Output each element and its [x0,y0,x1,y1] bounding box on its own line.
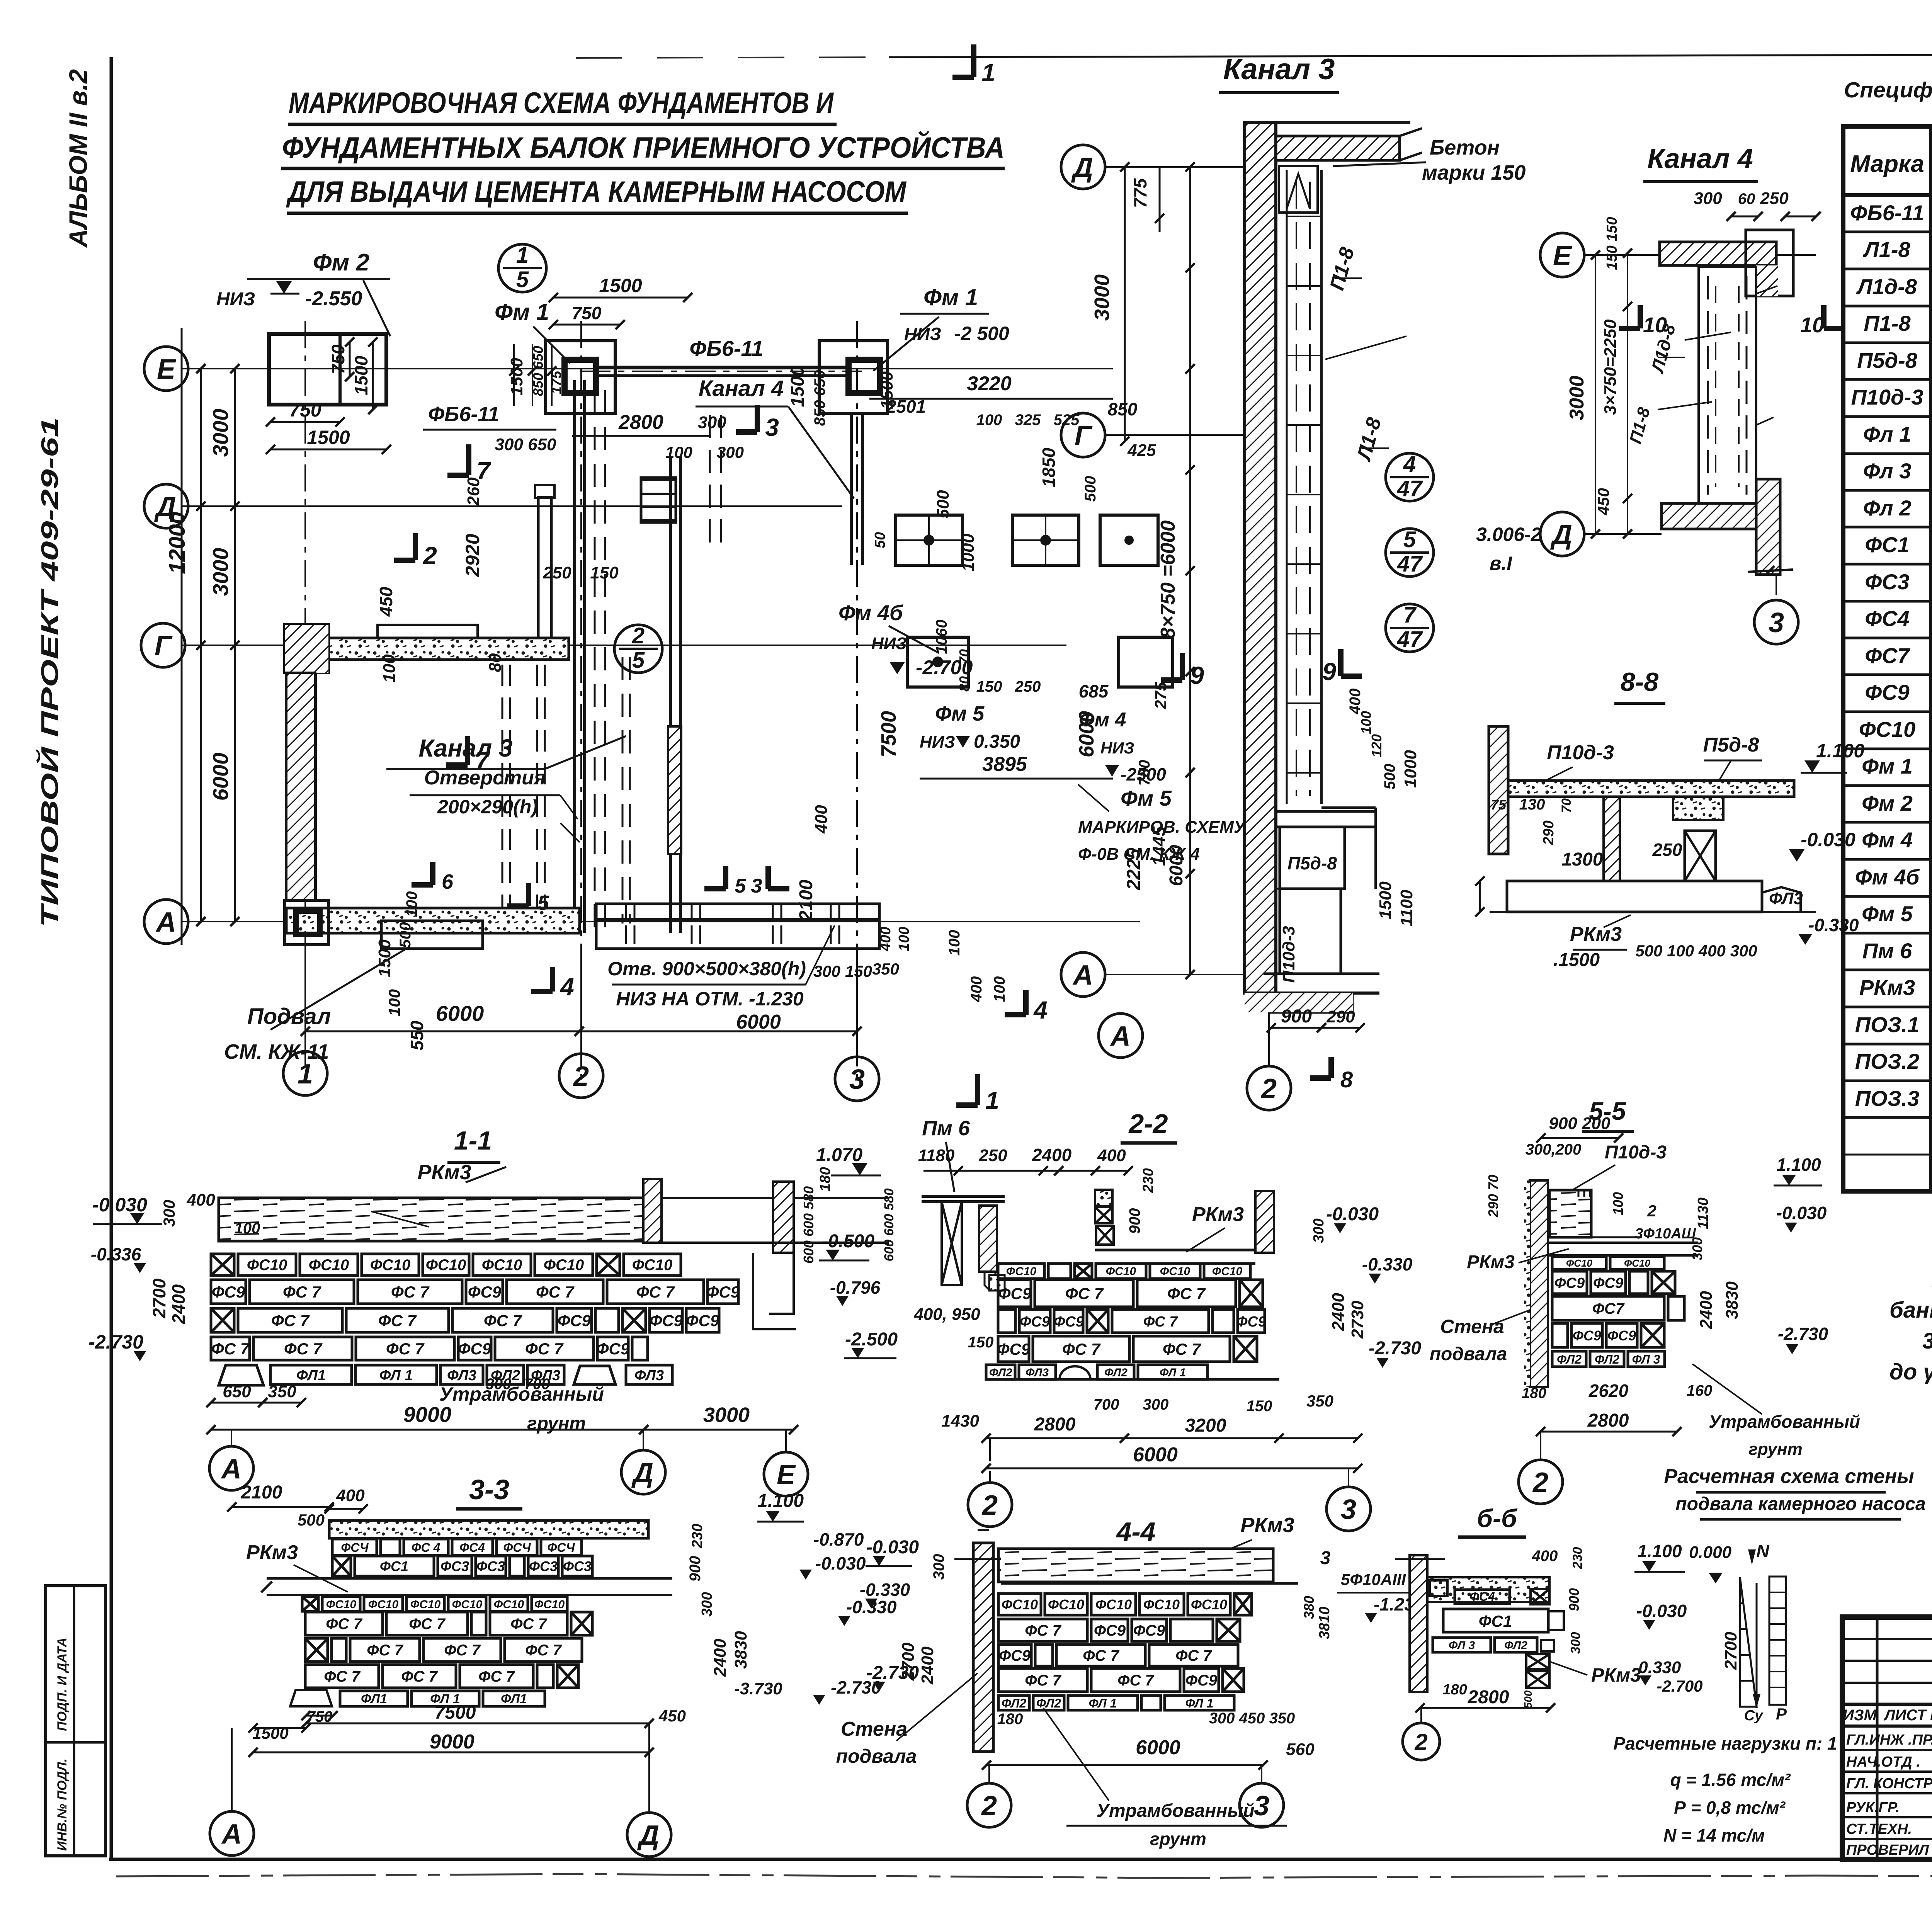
svg-text:2920: 2920 [462,534,483,577]
svg-text:0.350: 0.350 [974,731,1020,752]
svg-text:300 450 350: 300 450 350 [1209,1710,1295,1727]
svg-text:250: 250 [1652,840,1682,860]
svg-text:А: А [155,907,176,938]
svg-text:1500: 1500 [1376,881,1395,919]
svg-text:ФС9: ФС9 [212,1283,245,1301]
svg-text:ФС 7: ФС 7 [271,1311,310,1330]
svg-text:ФС4: ФС4 [1865,606,1909,631]
svg-text:П10д-3: П10д-3 [1605,1142,1667,1163]
svg-text:ФС 7: ФС 7 [409,1616,446,1633]
svg-text:ФС10: ФС10 [494,1598,524,1611]
svg-text:-0.336: -0.336 [91,1244,141,1264]
svg-text:подвала: подвала [836,1745,917,1767]
svg-text:ФС10: ФС10 [1566,1257,1593,1269]
svg-text:НАЧ.ОТД .: НАЧ.ОТД . [1846,1754,1920,1770]
svg-text:3000: 3000 [1090,274,1114,321]
svg-text:500: 500 [1381,764,1398,790]
svg-text:230: 230 [1570,1547,1585,1570]
svg-text:ФС 7: ФС 7 [525,1340,564,1358]
svg-text:ГЛ.ИНЖ .ПР.: ГЛ.ИНЖ .ПР. [1846,1732,1932,1748]
svg-text:8×750 =6000: 8×750 =6000 [1157,520,1179,639]
svg-text:-0.330: -0.330 [860,1580,910,1600]
svg-text:-0.030: -0.030 [1776,1203,1827,1223]
svg-text:300 650: 300 650 [495,435,556,454]
svg-text:Фм 5: Фм 5 [935,702,985,725]
svg-text:9000: 9000 [403,1402,452,1427]
svg-text:380: 380 [1301,1596,1317,1619]
svg-text:ФС4: ФС4 [1469,1590,1495,1604]
svg-text:350: 350 [872,960,899,978]
svg-text:500: 500 [1082,476,1099,502]
svg-text:ИЗМ: ИЗМ [1843,1707,1877,1724]
svg-text:ФС9: ФС9 [596,1340,630,1358]
svg-text:П10д-3: П10д-3 [1547,742,1614,764]
svg-text:100: 100 [235,1220,260,1237]
svg-text:290: 290 [1541,820,1557,845]
svg-text:2800: 2800 [1468,1687,1509,1708]
svg-text:ФС9: ФС9 [1865,680,1909,704]
svg-text:-0.330: -0.330 [1362,1254,1413,1274]
svg-text:3000: 3000 [208,409,233,457]
svg-text:ФС 7: ФС 7 [1065,1284,1104,1303]
svg-text:1500: 1500 [599,275,642,296]
svg-text:450: 450 [658,1707,686,1725]
svg-text:Фм 1: Фм 1 [495,299,549,325]
svg-text:-2.700: -2.700 [1656,1677,1702,1695]
svg-text:ФС9: ФС9 [1593,1275,1623,1291]
svg-text:ФЛ1: ФЛ1 [361,1692,387,1706]
svg-text:ФС 7: ФС 7 [510,1616,547,1633]
svg-text:1130: 1130 [1695,1197,1711,1229]
svg-text:1.100: 1.100 [1637,1541,1682,1561]
svg-text:ФС9: ФС9 [1020,1314,1050,1330]
svg-text:Г: Г [155,631,173,662]
svg-text:ФС10: ФС10 [309,1257,349,1274]
svg-text:ФС9: ФС9 [998,1284,1032,1303]
svg-text:400: 400 [1347,689,1364,715]
svg-text:ФБ6-11: ФБ6-11 [428,403,499,426]
svg-text:230: 230 [1140,1168,1156,1193]
svg-text:ФС10: ФС10 [452,1598,483,1611]
svg-text:8-8: 8-8 [1621,667,1658,697]
svg-text:ФС1: ФС1 [380,1558,408,1574]
svg-text:400: 400 [186,1190,215,1209]
svg-text:550: 550 [407,1020,427,1050]
svg-text:250: 250 [978,1146,1007,1165]
svg-text:ФС10: ФС10 [368,1598,399,1611]
svg-text:ФС9: ФС9 [558,1311,591,1330]
svg-text:1850: 1850 [1039,447,1059,487]
svg-text:ФС9: ФС9 [1573,1328,1601,1344]
svg-text:q = 1.56 тс/м²: q = 1.56 тс/м² [1670,1770,1791,1790]
svg-text:ФС10: ФС10 [247,1257,287,1274]
svg-text:П5д-8: П5д-8 [1703,734,1759,756]
svg-text:А: А [1110,1021,1131,1052]
svg-text:4-4: 4-4 [1116,1517,1155,1547]
svg-text:1-1: 1-1 [454,1126,492,1155]
svg-text:Подвал: Подвал [247,1004,331,1029]
svg-text:500: 500 [934,490,952,519]
svg-text:2: 2 [1532,1467,1548,1498]
svg-text:560: 560 [1286,1740,1315,1759]
svg-text:ФС 7: ФС 7 [478,1668,515,1685]
svg-text:780: 780 [1136,760,1153,786]
svg-text:180: 180 [997,1711,1023,1728]
svg-text:ФС 7: ФС 7 [211,1340,250,1358]
svg-text:150: 150 [845,962,872,980]
svg-text:400: 400 [812,805,831,834]
svg-text:в.I: в.I [1490,553,1512,574]
svg-text:750: 750 [572,303,602,323]
svg-text:НИЗ: НИЗ [871,634,907,653]
svg-text:Е: Е [157,354,176,385]
svg-text:9: 9 [1322,658,1336,685]
svg-text:Фм 1: Фм 1 [923,284,978,310]
svg-text:3200: 3200 [1185,1415,1226,1436]
svg-text:-2 500: -2 500 [954,323,1009,344]
svg-text:70: 70 [956,649,972,665]
svg-text:650: 650 [223,1382,251,1401]
svg-text:3000: 3000 [1566,376,1588,420]
svg-text:ФЛ 3: ФЛ 3 [1632,1352,1660,1366]
svg-text:150: 150 [1247,1398,1272,1415]
svg-text:3: 3 [1320,1548,1331,1568]
svg-text:250: 250 [1760,189,1789,208]
svg-text:685: 685 [1079,681,1109,701]
svg-text:47: 47 [1397,551,1423,577]
svg-text:ФЛ 1: ФЛ 1 [379,1367,413,1384]
svg-text:250: 250 [1015,678,1041,695]
svg-text:5: 5 [1403,527,1416,552]
svg-text:РКм3: РКм3 [1570,923,1622,946]
svg-text:100: 100 [976,412,1002,429]
svg-text:ФС 7: ФС 7 [536,1283,575,1301]
svg-text:П1-8: П1-8 [1864,311,1911,335]
svg-text:9: 9 [1190,662,1204,689]
svg-text:ФС10: ФС10 [1106,1265,1136,1278]
svg-text:100: 100 [380,654,399,683]
svg-text:Фм 5: Фм 5 [1121,786,1172,810]
svg-text:100: 100 [385,989,403,1016]
svg-text:ФС 7: ФС 7 [378,1311,417,1330]
svg-text:3830: 3830 [1723,1281,1742,1319]
svg-text:100: 100 [403,891,420,917]
svg-text:2: 2 [423,542,437,570]
svg-text:300: 300 [930,1554,947,1580]
svg-text:3000: 3000 [208,548,233,596]
svg-text:подвала: подвала [1430,1344,1507,1364]
svg-text:700: 700 [524,1376,550,1393]
svg-text:2: 2 [1260,1073,1277,1104]
svg-text:РКм3: РКм3 [1859,975,1915,1000]
svg-text:6000: 6000 [208,753,233,801]
svg-text:Отверстия: Отверстия [424,767,546,789]
svg-text:400: 400 [1097,1146,1126,1165]
svg-text:6000: 6000 [1075,711,1098,757]
svg-text:2700: 2700 [149,1278,169,1318]
svg-text:1500: 1500 [252,1724,288,1742]
svg-text:А: А [1072,960,1093,991]
svg-text:ФС 7: ФС 7 [1175,1647,1212,1664]
svg-text:4: 4 [1403,452,1416,477]
svg-text:ФСЧ: ФСЧ [503,1541,531,1554]
svg-text:2: 2 [1647,1202,1656,1220]
svg-text:600 600 580: 600 600 580 [801,1186,816,1264]
svg-text:ФС 7: ФС 7 [444,1642,481,1659]
svg-text:8: 8 [1340,1067,1353,1092]
svg-text:Д: Д [637,1820,659,1851]
svg-text:Фм 5: Фм 5 [1862,901,1913,926]
svg-text:400, 950: 400, 950 [913,1305,980,1324]
svg-text:1500: 1500 [307,427,350,448]
svg-text:марки 150: марки 150 [1422,161,1526,184]
svg-text:3: 3 [1254,1791,1269,1821]
svg-text:100: 100 [991,976,1008,1002]
svg-text:ФЛ 3: ФЛ 3 [1449,1639,1475,1652]
svg-text:ФЛ2: ФЛ2 [1557,1352,1582,1366]
svg-text:300: 300 [486,1376,512,1393]
svg-text:250: 250 [543,563,571,582]
svg-text:ФС7: ФС7 [1865,643,1910,668]
svg-text:1180: 1180 [918,1146,955,1165]
svg-text:450: 450 [1594,488,1612,515]
svg-text:ФЛ2: ФЛ2 [1104,1366,1128,1379]
svg-text:ФЛ3: ФЛ3 [447,1367,476,1384]
svg-text:ЛИСТ: ЛИСТ [1883,1707,1928,1724]
svg-text:80: 80 [486,653,505,672]
svg-text:300: 300 [1689,1237,1705,1260]
svg-text:100: 100 [1358,711,1374,734]
svg-text:300: 300 [1568,1632,1583,1654]
svg-text:300: 300 [1311,1218,1327,1243]
svg-text:1000: 1000 [959,534,978,571]
svg-text:ФС10: ФС10 [632,1257,673,1274]
svg-text:ФС10: ФС10 [1160,1265,1190,1278]
svg-text:ПРОВЕРИЛ: ПРОВЕРИЛ [1846,1842,1929,1858]
svg-text:300: 300 [813,962,840,980]
svg-text:300: 300 [160,1200,178,1227]
svg-text:300: 300 [699,1592,715,1616]
svg-text:290 70: 290 70 [1485,1175,1501,1218]
svg-text:ФЛ 1: ФЛ 1 [1160,1366,1186,1379]
svg-text:РКм3: РКм3 [246,1541,298,1564]
svg-text:ФС9: ФС9 [1607,1328,1636,1344]
svg-text:3220: 3220 [967,372,1012,395]
svg-text:300: 300 [1143,1396,1169,1413]
svg-text:ГЛ. КОНСТР: ГЛ. КОНСТР [1846,1776,1932,1792]
svg-text:грунт: грунт [1748,1440,1802,1459]
svg-text:СМ. КЖ-11: СМ. КЖ-11 [224,1040,329,1063]
svg-text:ФУНДАМЕНТНЫХ БАЛОК ПРИЕМНОГО: ФУНДАМЕНТНЫХ БАЛОК ПРИЕМНОГО УСТРОЙСТВА [282,131,1005,164]
svg-text:Л1д-8: Л1д-8 [1856,274,1917,299]
svg-text:Фм 4: Фм 4 [1862,828,1913,852]
svg-text:ФС 7: ФС 7 [484,1311,522,1330]
svg-text:подвала камерного насоса: подвала камерного насоса [1675,1494,1925,1514]
svg-text:100: 100 [1610,1192,1626,1215]
svg-text:260: 260 [464,477,483,506]
svg-text:150 150: 150 150 [1604,217,1620,270]
svg-text:ФС10: ФС10 [326,1598,357,1611]
svg-text:ФЛ1: ФЛ1 [296,1367,326,1384]
svg-text:70: 70 [1559,798,1574,813]
svg-text:грунт: грунт [1150,1829,1206,1849]
svg-text:750: 750 [289,399,321,421]
svg-text:ТИПОВОЙ ПРОЕКТ 409-29-61: ТИПОВОЙ ПРОЕКТ 409-29-61 [36,417,63,927]
svg-text:ФБ6-11: ФБ6-11 [689,336,763,361]
svg-text:НИЗ: НИЗ [216,289,255,310]
svg-text:500 100 400 300: 500 100 400 300 [1635,942,1757,960]
svg-text:2400: 2400 [168,1284,189,1324]
svg-text:ФС10: ФС10 [1624,1257,1651,1269]
svg-text:СТ.ТЕХН.: СТ.ТЕХН. [1846,1821,1912,1837]
svg-text:ФС 4: ФС 4 [412,1541,440,1554]
svg-text:ФС3: ФС3 [1865,570,1909,594]
svg-text:275: 275 [1151,682,1170,709]
svg-text:ФС9: ФС9 [1236,1314,1266,1330]
svg-text:850 650: 850 650 [811,370,828,426]
svg-text:Фл 2: Фл 2 [1863,496,1912,520]
svg-text:7500: 7500 [435,1702,476,1723]
svg-text:ФС 7: ФС 7 [525,1642,562,1659]
svg-text:-0.030: -0.030 [1636,1601,1687,1621]
svg-text:ФС 7: ФС 7 [1025,1622,1061,1639]
svg-text:ФЛ2: ФЛ2 [1002,1696,1026,1710]
svg-text:290: 290 [1326,1007,1355,1026]
svg-text:ФС 7: ФС 7 [391,1283,430,1301]
svg-text:9000: 9000 [430,1731,474,1753]
svg-text:1: 1 [981,59,995,87]
svg-text:МАРКИРОВОЧНАЯ СХЕМА ФУНДАМЕН: МАРКИРОВОЧНАЯ СХЕМА ФУНДАМЕНТОВ И [289,87,834,119]
svg-text:2225: 2225 [1124,848,1144,890]
svg-text:47: 47 [1397,627,1423,652]
svg-text:ФС 7: ФС 7 [1025,1672,1061,1689]
svg-text:2700: 2700 [1721,1632,1740,1670]
svg-text:3830: 3830 [731,1631,750,1669]
svg-text:ФС 7: ФС 7 [1167,1284,1206,1303]
svg-text:6000: 6000 [1136,1736,1180,1759]
svg-text:175: 175 [548,371,564,394]
svg-text:Канал 4: Канал 4 [699,376,784,401]
svg-text:ФС3: ФС3 [563,1558,592,1574]
svg-text:ФС9: ФС9 [1554,1275,1585,1291]
svg-text:2730: 2730 [1348,1301,1367,1339]
svg-text:.1500: .1500 [1553,950,1600,970]
svg-text:ФС9: ФС9 [1094,1622,1126,1639]
svg-text:5Ф10АIII: 5Ф10АIII [1341,1570,1406,1588]
svg-text:Пм 6: Пм 6 [1862,939,1912,963]
svg-text:ПОДП. И ДАТА: ПОДП. И ДАТА [55,1638,70,1731]
svg-text:П5д-8: П5д-8 [1287,853,1337,873]
svg-text:75: 75 [1491,797,1507,813]
svg-text:РКм3: РКм3 [1240,1514,1294,1537]
svg-text:ФС10: ФС10 [370,1257,411,1274]
svg-text:180: 180 [1442,1682,1467,1698]
svg-text:ФС10: ФС10 [544,1257,584,1274]
svg-text:1300: 1300 [1562,849,1603,870]
svg-text:ФС10: ФС10 [1859,717,1915,742]
svg-text:ДЛЯ ВЫДАЧИ ЦЕМЕНТА КАМЕРНЫМ: ДЛЯ ВЫДАЧИ ЦЕМЕНТА КАМЕРНЫМ НАСОСОМ [286,175,907,208]
svg-text:-0.030: -0.030 [1801,829,1855,850]
svg-text:РКм3: РКм3 [1467,1252,1515,1272]
svg-text:ФС9: ФС9 [1133,1622,1165,1639]
svg-text:грунт: грунт [527,1413,586,1434]
svg-text:ФС10: ФС10 [534,1598,565,1611]
svg-text:Пм 6: Пм 6 [922,1117,970,1140]
svg-text:750: 750 [328,344,348,374]
svg-text:2400: 2400 [1697,1291,1716,1329]
svg-text:12000: 12000 [165,512,190,574]
svg-text:450: 450 [376,587,396,617]
svg-text:150: 150 [976,678,1002,695]
svg-text:2400: 2400 [1329,1293,1348,1331]
svg-text:ФС10: ФС10 [1212,1265,1243,1278]
svg-text:ФС9: ФС9 [1054,1314,1084,1330]
svg-text:НИЗ НА ОТМ. -1.230: НИЗ НА ОТМ. -1.230 [616,988,804,1010]
svg-text:130: 130 [1519,796,1545,813]
svg-text:2100: 2100 [796,879,816,921]
svg-text:ФЛ2: ФЛ2 [1504,1639,1527,1652]
svg-text:600 600 580: 600 600 580 [882,1188,896,1261]
svg-text:Канал 4: Канал 4 [1647,143,1753,174]
svg-text:180: 180 [817,1167,833,1191]
svg-text:3000: 3000 [703,1403,750,1427]
svg-text:Д: Д [1071,152,1093,183]
svg-text:Е: Е [777,1459,796,1490]
svg-text:Д: Д [631,1458,653,1488]
svg-text:1500: 1500 [351,355,371,395]
svg-text:1: 1 [298,1059,313,1090]
svg-text:-0.330: -0.330 [1633,1658,1681,1677]
svg-text:900: 900 [687,1556,704,1582]
svg-text:400: 400 [968,976,985,1003]
svg-text:-0.030: -0.030 [815,1553,866,1573]
svg-text:ФС9: ФС9 [458,1340,492,1358]
svg-text:ФС9: ФС9 [997,1340,1031,1358]
svg-text:1: 1 [516,243,529,268]
svg-text:500: 500 [1522,1690,1534,1708]
svg-text:ФСЧ: ФСЧ [547,1541,575,1554]
svg-text:-2.730: -2.730 [1778,1324,1828,1344]
svg-text:Стена: Стена [1440,1316,1504,1337]
svg-text:ФЛ2: ФЛ2 [1036,1696,1061,1710]
svg-text:10: 10 [1800,313,1824,337]
svg-text:47: 47 [1397,476,1423,501]
svg-text:6000: 6000 [436,1001,484,1026]
svg-text:ФС 7: ФС 7 [1062,1340,1101,1358]
svg-text:ФСЧ: ФСЧ [341,1541,369,1554]
svg-text:ФС9: ФС9 [1185,1672,1218,1689]
svg-text:200×290(h): 200×290(h) [437,796,538,818]
svg-text:АЛЬБОМ II в.2: АЛЬБОМ II в.2 [64,69,92,248]
svg-text:-2.550: -2.550 [305,287,362,310]
svg-text:Фм 2: Фм 2 [313,249,369,276]
svg-text:ФС3: ФС3 [476,1558,505,1574]
svg-text:2-2: 2-2 [1128,1109,1168,1139]
svg-text:900: 900 [1566,1588,1582,1611]
svg-text:ПОЗ.2: ПОЗ.2 [1855,1049,1920,1073]
svg-text:2800: 2800 [1034,1414,1076,1435]
svg-text:1.070: 1.070 [816,1145,862,1165]
svg-text:-0.030: -0.030 [92,1194,147,1216]
svg-text:ФС10: ФС10 [1006,1265,1037,1278]
svg-text:ФС 7: ФС 7 [386,1340,425,1358]
svg-text:900: 900 [1281,1006,1312,1027]
svg-text:ФС 7: ФС 7 [283,1283,321,1301]
svg-text:ФЛ2: ФЛ2 [989,1366,1012,1379]
svg-text:-2.500: -2.500 [845,1329,898,1350]
svg-text:банки и общие примечания: банки и общие примечания см лист КЖ-4 . [1889,1298,1932,1323]
svg-text:ФС9: ФС9 [686,1311,719,1330]
